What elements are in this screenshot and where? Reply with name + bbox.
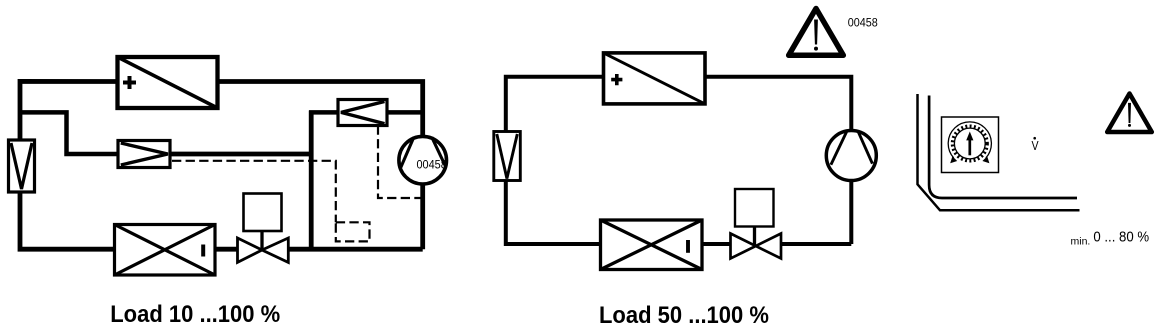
svg-text:Load 10 ...100 %: Load 10 ...100 % — [110, 300, 280, 327]
damper actuator icon (gear knob in box) — [942, 117, 999, 173]
pipe bend outer line — [918, 94, 1080, 210]
dashed control line from bypass valve to compressor — [378, 126, 423, 199]
wire: bottom run — [215, 247, 423, 252]
wire: middle circuit top header — [506, 77, 852, 132]
wire: mid vertical to bypass valve to compressor line — [309, 110, 423, 115]
dashed sensing line from check valve to evaporator outlet bulb — [172, 161, 370, 242]
rotation arc with arrowheads — [948, 122, 991, 158]
svg-text:00458: 00458 — [848, 17, 878, 30]
filter/drier F2 (middle circuit) — [494, 132, 521, 181]
warning triangle W2 (right) — [1107, 94, 1152, 133]
svg-text:0 ... 80 %: 0 ... 80 % — [1093, 228, 1149, 245]
svg-text:00458: 00458 — [416, 159, 446, 171]
bypass valve V2 (left pointing arrow box) — [338, 100, 387, 126]
wire: branch from left vertical to check valve — [20, 112, 118, 154]
knob arrow — [968, 140, 971, 155]
expansion valve V3 (left circuit, bowtie with actuator) — [238, 194, 289, 263]
check valve V1 (right pointing arrow box) — [118, 141, 170, 168]
wire: middle left vertical below filter — [506, 181, 601, 245]
warning triangle W1 (above middle circuit) — [789, 9, 844, 56]
wire: compressor down to bottom wire — [420, 184, 425, 250]
evaporator E2 (left circuit, X box) — [115, 225, 216, 276]
wire: middle bottom run — [702, 242, 731, 246]
filter/drier F1 (left circuit) — [9, 140, 35, 192]
svg-text:Load 50 ...100 %: Load 50 ...100 % — [599, 301, 769, 328]
condenser E1 (left circuit, + box) — [118, 57, 218, 108]
wire: check valve to mid vertical — [170, 152, 311, 157]
svg-text:min.: min. — [1071, 235, 1091, 247]
expansion valve V4 (middle circuit, bowtie with actuator) — [731, 189, 782, 259]
knob circle — [954, 128, 985, 159]
wire: left vertical below filter to bottom — [20, 192, 115, 249]
wire: middle compressor to bottom — [781, 181, 851, 245]
compressor M2 (middle circuit) — [826, 131, 876, 181]
wire: left circuit top header — [20, 81, 423, 140]
condenser E3 (middle circuit, + box) — [604, 53, 706, 104]
pipe bend inner line — [929, 96, 1077, 199]
evaporator E4 (middle circuit, X box) — [601, 220, 703, 270]
gear teeth — [953, 126, 987, 160]
svg-text:V: V — [1031, 139, 1038, 153]
compressor M1 (left circuit) — [399, 136, 447, 184]
wire: mid vertical line — [309, 111, 314, 250]
